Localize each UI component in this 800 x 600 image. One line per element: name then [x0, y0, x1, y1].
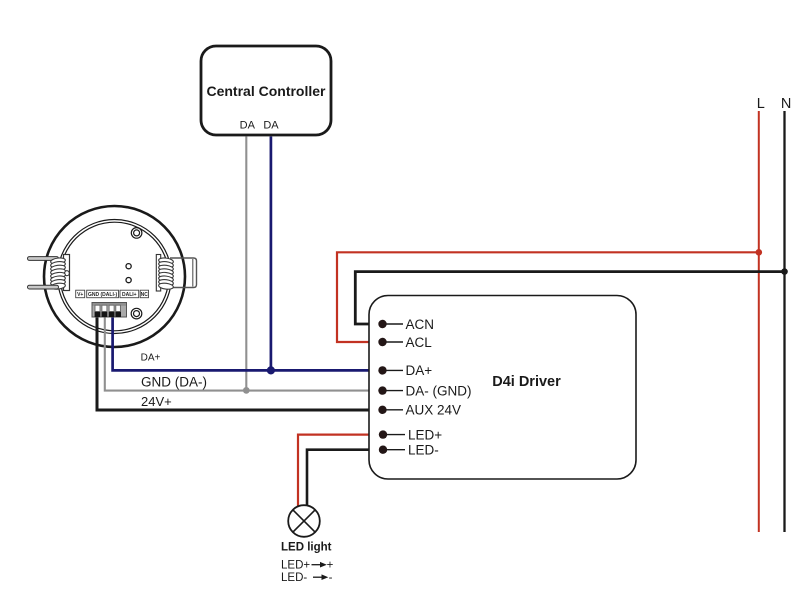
driver pin DA+	[378, 363, 432, 378]
D4i driver box	[369, 296, 636, 480]
wire red L to ACL	[337, 252, 759, 342]
wire LED- black from driver	[307, 450, 369, 506]
driver pin ACN	[378, 317, 434, 332]
svg-text:LED+: LED+	[408, 427, 442, 442]
svg-text:GND (DALI-): GND (DALI-)	[88, 292, 117, 298]
svg-text:L: L	[757, 96, 765, 112]
junction black N node	[781, 268, 788, 275]
svg-text:N: N	[781, 96, 791, 112]
wire V+ black from sensor to AUX 24V	[97, 313, 369, 410]
svg-text:LED-: LED-	[408, 443, 439, 458]
sensor terminal label NC	[140, 290, 148, 298]
svg-text:Central Controller: Central Controller	[206, 83, 326, 99]
svg-text:DA+: DA+	[406, 363, 433, 378]
sensor right spring clip	[158, 257, 173, 290]
svg-text:GND (DA-): GND (DA-)	[141, 374, 207, 389]
legend LED- arrow	[281, 572, 333, 584]
svg-text:ACN: ACN	[406, 317, 435, 332]
driver pin ACL	[378, 335, 432, 350]
wire N black vertical	[783, 111, 785, 532]
svg-text:DA- (GND): DA- (GND)	[406, 383, 472, 398]
sensor terminal label DALI+	[120, 290, 139, 298]
driver pin AUX 24V	[378, 403, 461, 418]
sensor terminal label GND (DALI-)	[87, 290, 119, 298]
svg-text:LED light: LED light	[281, 542, 332, 554]
svg-text:LED-: LED-	[281, 572, 307, 584]
sensor right mounting bracket	[170, 258, 197, 288]
sensor screw lug bottom	[131, 308, 142, 319]
driver pin LED+	[379, 427, 442, 442]
occupancy sensor inner ring inner line	[60, 222, 169, 331]
svg-text:DA: DA	[240, 119, 256, 131]
svg-text:-: -	[329, 572, 333, 584]
wire GND gray from sensor to DA-	[105, 313, 369, 391]
wire DALI+ blue from sensor to DA+	[113, 313, 369, 370]
junction gray DA node	[243, 387, 250, 394]
svg-text:DA+: DA+	[141, 352, 161, 363]
junction red L node	[756, 249, 763, 256]
sensor wire connector block	[92, 303, 127, 318]
central controller box	[201, 46, 331, 135]
sensor left spring clip	[50, 257, 65, 290]
svg-text:ACL: ACL	[406, 335, 433, 350]
sensor left bracket plate	[64, 255, 70, 291]
wire DA blue from central controller	[270, 137, 273, 371]
occupancy sensor outer ring	[44, 206, 185, 347]
legend LED+ arrow	[281, 560, 334, 572]
sensor left mounting rod upper	[28, 257, 59, 261]
svg-text:DA: DA	[263, 119, 279, 131]
driver pin LED-	[379, 443, 439, 458]
wire L red vertical	[758, 111, 760, 532]
sensor right bracket plate	[156, 255, 160, 292]
svg-text:24V+: 24V+	[141, 394, 172, 409]
svg-text:AUX 24V: AUX 24V	[406, 403, 462, 418]
sensor left mounting rod lower	[28, 285, 59, 289]
svg-text:D4i Driver: D4i Driver	[492, 374, 561, 390]
svg-text:NC: NC	[141, 292, 149, 298]
LED light lamp symbol	[288, 505, 320, 537]
svg-text:V+: V+	[77, 292, 83, 298]
driver pin DA- (GND)	[378, 383, 471, 398]
sensor screw lug top	[131, 228, 142, 239]
junction blue DA node	[267, 366, 275, 374]
svg-text:DALI+: DALI+	[122, 292, 137, 298]
sensor center holes	[126, 264, 131, 283]
wire black N to ACN	[355, 272, 784, 324]
occupancy sensor inner ring outer line	[58, 220, 172, 334]
svg-text:+: +	[327, 560, 334, 572]
svg-text:LED+: LED+	[281, 560, 310, 572]
sensor terminal label V+	[76, 290, 85, 298]
wire DA gray from central controller	[245, 137, 247, 391]
wire LED+ red from driver	[298, 435, 369, 506]
